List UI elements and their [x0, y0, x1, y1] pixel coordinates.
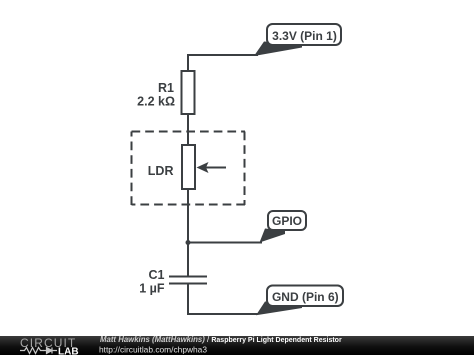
wire LDR to junction to C1 [187, 188, 189, 277]
dashed enclosure box around LDR [132, 132, 246, 206]
svg-text:http://circuitlab.com/chpwha3: http://circuitlab.com/chpwha3 [99, 345, 207, 355]
svg-text:LAB: LAB [58, 347, 79, 355]
net flag GPIO box [268, 211, 306, 230]
label C1 value [139, 268, 165, 296]
wire bottom horizontal to GND flag [187, 313, 258, 315]
capacitor C1 plates [169, 277, 207, 284]
net flag 3.3V (Pin 1) box [267, 24, 341, 45]
wire top horizontal to 3.3V flag [188, 54, 258, 56]
net flag GPIO tail [260, 229, 286, 243]
resistor R1 [182, 71, 195, 114]
net flag 3.3V (Pin 1) tail [254, 42, 302, 57]
wire junction to GPIO flag [188, 242, 262, 244]
CircuitLab logo resistor zigzag [20, 348, 44, 354]
node junction dot [186, 240, 191, 245]
LDR arrow [197, 162, 227, 173]
label R1 value [137, 81, 175, 109]
footer credit bar [0, 336, 474, 355]
net flag GND (Pin 6) box [267, 286, 343, 307]
CircuitLab logo diode [44, 348, 58, 354]
photoresistor LDR body [182, 145, 195, 189]
wire R1 to LDR [187, 113, 189, 146]
wire vertical from top corner to R1 [187, 54, 189, 72]
net flag GND (Pin 6) tail [256, 302, 302, 316]
svg-text:Matt Hawkins (MattHawkins): Matt Hawkins (MattHawkins) / Raspberry P… [100, 335, 342, 344]
wire C1 to bottom corner [187, 283, 189, 315]
